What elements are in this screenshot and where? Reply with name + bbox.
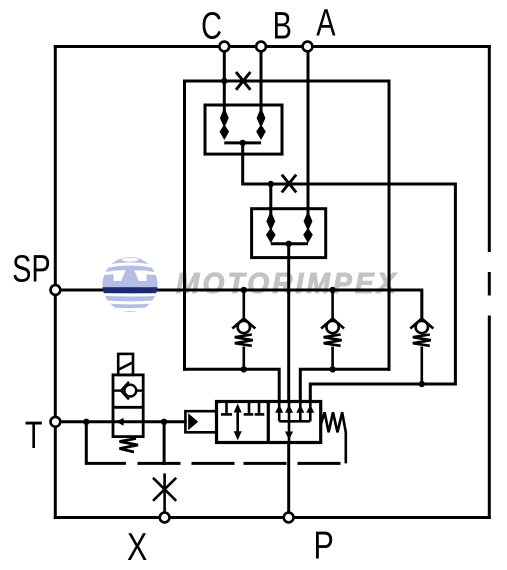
junction: U2 left branch on X2 line	[268, 181, 274, 187]
DV left chamber blocked ports	[221, 402, 264, 415]
svg-text:B: B	[273, 5, 292, 48]
port node B	[256, 42, 266, 52]
junction: CV3 bottom	[419, 381, 425, 387]
U2 right branch arrows	[303, 211, 313, 244]
wire: valve to P node	[287, 443, 290, 513]
DV right chamber arrowheads	[275, 405, 314, 441]
junction: T line left drop	[83, 419, 89, 425]
port node X	[160, 513, 170, 523]
junction: CV2 top on SP line	[329, 287, 335, 293]
DV return spring	[321, 412, 346, 463]
DV left chamber double arrow	[234, 404, 242, 441]
wire: left boundary	[54, 47, 57, 518]
junction: CV1 top on SP line	[241, 287, 247, 293]
check valve CV2	[321, 290, 344, 369]
svg-text:X: X	[127, 525, 147, 568]
wire: C line down to block 1	[223, 47, 226, 113]
junction: T line right drop	[161, 419, 167, 425]
port labels	[12, 2, 336, 457]
center tab	[121, 268, 139, 281]
watermark globe	[100, 257, 160, 312]
navy band where SP line crosses	[100, 287, 160, 293]
junction: U2 outlet	[286, 241, 292, 247]
wire: right boundary dash	[488, 274, 491, 295]
wire: inner frame left vertical	[183, 81, 186, 369]
junction: C line on crossover rail	[221, 78, 227, 84]
throttle-check block U1	[205, 105, 282, 154]
wire: B line down to block 1	[260, 47, 263, 113]
pilot valve V1 body	[113, 375, 143, 437]
throttle-check block U2	[252, 209, 326, 258]
junction: CV1 bottom	[241, 366, 247, 372]
pilot actuator arrow box	[185, 411, 217, 432]
plug symbol above X node	[153, 473, 176, 512]
junction: CV2 bottom	[329, 366, 335, 372]
wire: block2 left branch riser	[269, 184, 272, 214]
pilot valve V1 flow arrow (left)	[116, 418, 124, 426]
junction: U1 outlet	[240, 140, 246, 146]
plugged port X2 on line	[282, 175, 296, 193]
wire: A line down to block 2	[307, 47, 310, 215]
check valve CV1	[232, 290, 255, 369]
pilot actuator arrow	[188, 413, 198, 430]
wire: right boundary lower solid	[488, 317, 491, 518]
wire: lower-right horizontal to valve port 3	[300, 369, 389, 401]
check valve CV3	[410, 290, 433, 384]
wire: right boundary upper solid	[488, 47, 491, 251]
pilot valve V1 ball check	[113, 382, 143, 400]
wire: inner frame top horizontal	[185, 80, 390, 83]
port node SP	[51, 285, 61, 295]
port node T	[51, 417, 61, 427]
wire: bottom boundary	[55, 516, 489, 519]
wire: inner frame right vertical	[388, 81, 391, 369]
wire: block2 center drop to valve and P	[287, 244, 290, 402]
plugged port X1 on line	[236, 72, 250, 90]
wire: block1 drop and X2 line to right side	[243, 143, 456, 402]
wire: T drop left	[86, 422, 124, 464]
U1 right branch arrows	[256, 108, 266, 141]
DV right chamber manifold with arrows	[279, 402, 310, 443]
wire: dashed drain line	[139, 462, 179, 465]
svg-text:C: C	[201, 5, 222, 48]
U2 left branch arrows	[266, 211, 276, 244]
port node A	[303, 42, 313, 52]
port node P	[284, 513, 294, 523]
svg-text:T: T	[25, 414, 43, 457]
pilot valve V1 solenoid box	[118, 354, 133, 375]
svg-text:A: A	[316, 2, 336, 45]
svg-text:P: P	[313, 524, 333, 567]
wire: top rail C-B-A	[55, 45, 489, 48]
wire: T line	[55, 420, 185, 423]
U1 left branch arrows	[220, 108, 230, 141]
pilot valve V1 spring	[120, 439, 139, 453]
directional valve DV body	[217, 402, 321, 443]
wire: lower-left horizontal to valve port 1	[185, 369, 280, 401]
port node C	[219, 42, 229, 52]
white bird gap	[114, 271, 147, 281]
svg-text:SP: SP	[12, 248, 51, 291]
wire: T drop right	[163, 422, 166, 464]
wire: SP line	[55, 290, 421, 319]
